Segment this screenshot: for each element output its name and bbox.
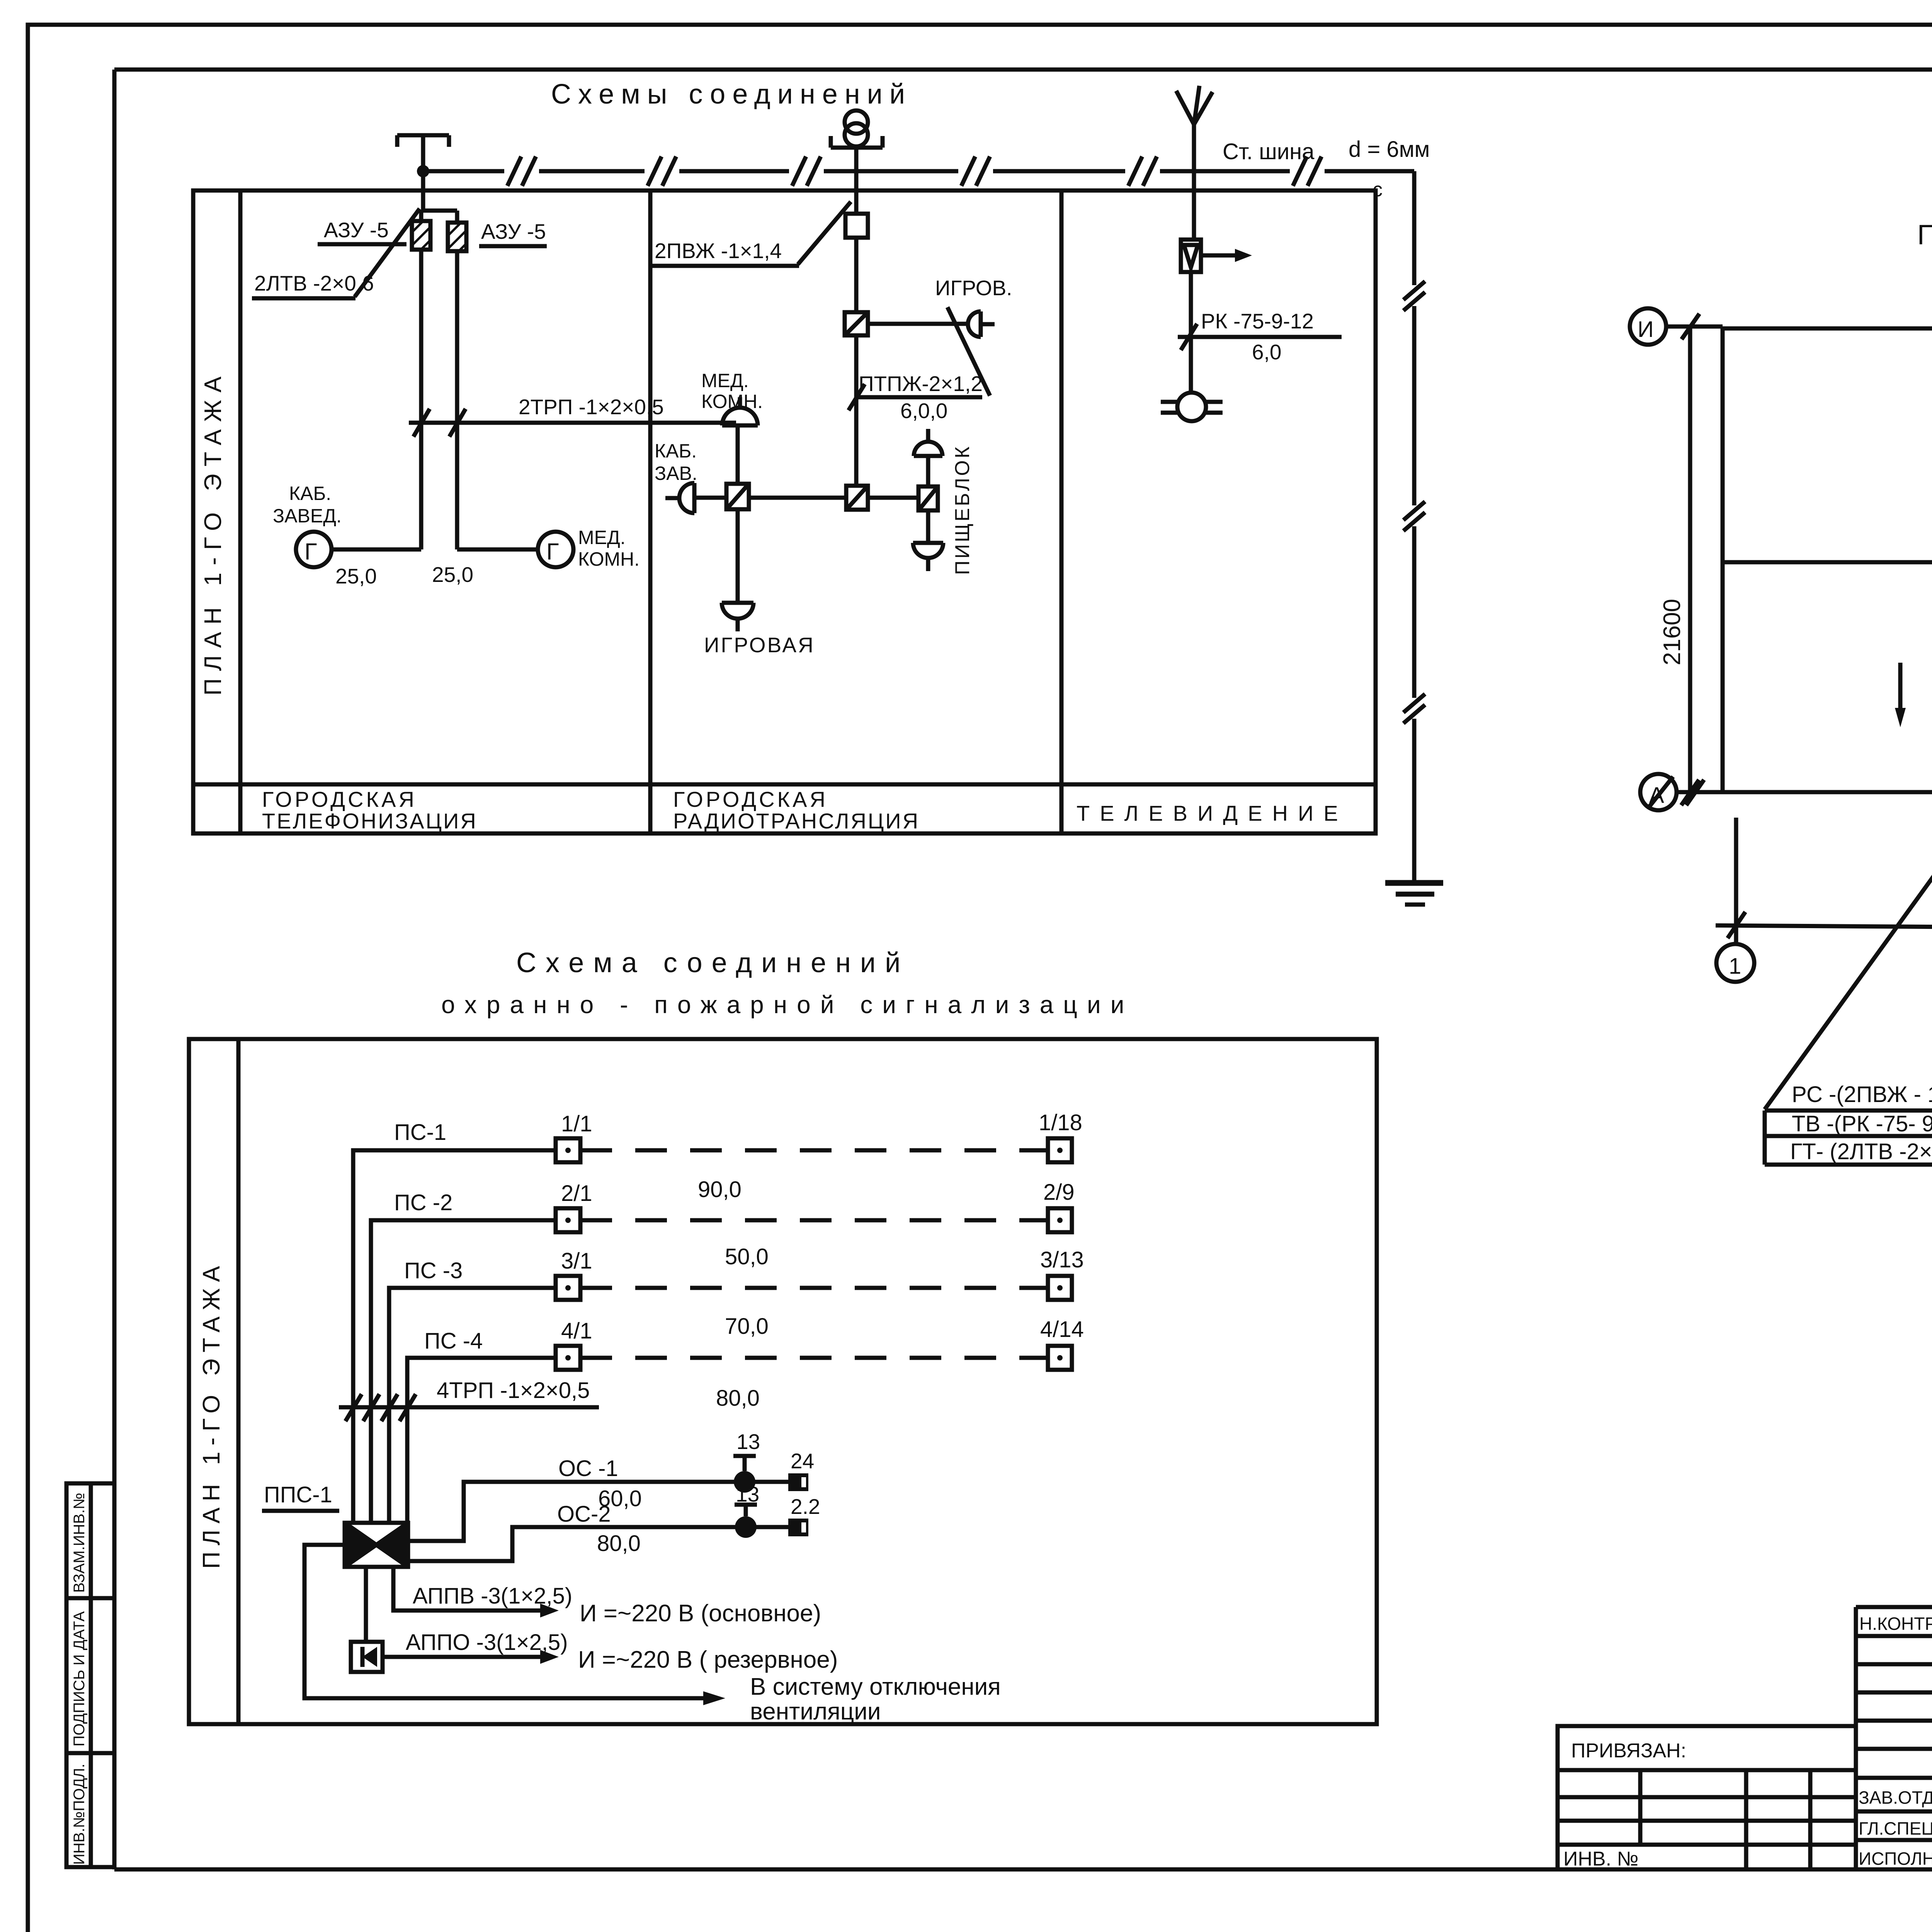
svg-text:90,0: 90,0 — [698, 1177, 742, 1202]
svg-text:АППО -3(1×2,5): АППО -3(1×2,5) — [406, 1630, 568, 1655]
svg-text:ИСПОЛН.: ИСПОЛН. — [1859, 1849, 1932, 1869]
svg-text:КАБ.: КАБ. — [655, 440, 697, 462]
svg-text:ОС -1: ОС -1 — [558, 1456, 618, 1481]
svg-text:3/13: 3/13 — [1040, 1247, 1084, 1272]
svg-text:ЗАВ.ОТД.: ЗАВ.ОТД. — [1859, 1787, 1932, 1808]
speaker dome мед.комн. — [722, 397, 758, 425]
svg-text:РС -(2ПВЖ - 1×1,4): РС -(2ПВЖ - 1×1,4) — [1792, 1082, 1932, 1107]
wire right branch — [868, 496, 918, 500]
svg-text:ПС -2: ПС -2 — [394, 1190, 452, 1215]
svg-text:ИГРОВАЯ: ИГРОВАЯ — [704, 633, 815, 657]
svg-text:Ст. шина: Ст. шина — [1223, 139, 1315, 164]
telephone socket Г (каб. завед.) — [296, 532, 332, 567]
radio distribution valve (center) — [846, 486, 868, 510]
svg-text:ЗАВЕД.: ЗАВЕД. — [273, 505, 342, 527]
wire down — [1189, 272, 1193, 393]
svg-text:2/1: 2/1 — [561, 1181, 592, 1206]
wire up + dome — [926, 456, 930, 486]
svg-text:3/1: 3/1 — [561, 1248, 592, 1274]
telephone socket Г (мед. комн.) — [538, 532, 573, 567]
extension to axis 1 — [1734, 818, 1738, 944]
svg-text:ТЕЛЕФОНИЗАЦИЯ: ТЕЛЕФОНИЗАЦИЯ — [262, 809, 478, 833]
svg-text:ТВ -(РК -75- 9 -12): ТВ -(РК -75- 9 -12) — [1792, 1111, 1932, 1136]
svg-text:вентиляции: вентиляции — [750, 1698, 881, 1725]
svg-text:Г: Г — [546, 539, 559, 565]
svg-text:25,0: 25,0 — [432, 563, 473, 587]
radio limiter box — [845, 214, 868, 238]
fire control panel ППС-1 (bowtie) — [345, 1523, 408, 1567]
привязан table — [1558, 1726, 1856, 1869]
svg-text:13: 13 — [736, 1430, 760, 1454]
svg-text:АППВ -3(1×2,5): АППВ -3(1×2,5) — [413, 1583, 572, 1609]
svg-text:1: 1 — [1729, 954, 1741, 979]
svg-text:ГОРОДСКАЯ: ГОРОДСКАЯ — [262, 787, 417, 811]
radio valve box (left) — [726, 484, 749, 509]
svg-text:1/18: 1/18 — [1039, 1110, 1082, 1135]
svg-text:1/1: 1/1 — [561, 1111, 592, 1136]
detector 2/1 — [556, 1208, 580, 1232]
svg-text:6,0,0: 6,0,0 — [900, 399, 947, 423]
svg-text:ИНВ. №: ИНВ. № — [1563, 1848, 1638, 1870]
wire to игров. speaker — [868, 322, 968, 326]
svg-text:13: 13 — [736, 1482, 759, 1506]
svg-text:ИНВ.№ПОДЛ.: ИНВ.№ПОДЛ. — [71, 1764, 88, 1865]
TV amplifier — [1181, 240, 1201, 272]
wire to каб.зав. speaker — [694, 496, 726, 500]
radio valve box (игровая feed) — [845, 312, 868, 335]
svg-text:Н.КОНТР.: Н.КОНТР. — [1859, 1614, 1932, 1634]
svg-text:РК -75-9-12: РК -75-9-12 — [1201, 309, 1314, 333]
svg-text:80,0: 80,0 — [597, 1531, 641, 1556]
telephone entry cap symbol — [397, 135, 449, 171]
ОС-2 bell — [735, 1516, 757, 1538]
svg-text:2.2: 2.2 — [791, 1495, 820, 1519]
riser ПС-2 — [371, 1220, 556, 1523]
svg-text:В систему отключения: В систему отключения — [750, 1673, 1001, 1700]
roof plan building outline — [1723, 328, 1932, 834]
wire left branch — [749, 496, 846, 500]
svg-text:50,0: 50,0 — [725, 1244, 769, 1269]
speaker horn игров. — [968, 311, 995, 337]
svg-text:ПС -4: ПС -4 — [424, 1328, 483, 1354]
wire: telephone drop — [421, 171, 457, 223]
reserve supply box АППО — [351, 1642, 383, 1672]
dimension line 31800 — [1716, 925, 1932, 930]
riser ПС-3 — [389, 1288, 556, 1523]
leader diagonal to ПТПЖ label — [947, 307, 990, 396]
TV antenna — [1176, 86, 1213, 240]
svg-text:2ПВЖ -1×1,4: 2ПВЖ -1×1,4 — [655, 239, 782, 263]
dashed loop 2 — [580, 1218, 1048, 1223]
bus break marks // — [507, 156, 1321, 186]
top band line / drawing frame top — [114, 68, 1932, 72]
svg-text:70,0: 70,0 — [725, 1314, 769, 1339]
svg-text:МЕД.: МЕД. — [578, 527, 626, 548]
svg-text:РАДИОТРАНСЛЯЦИЯ: РАДИОТРАНСЛЯЦИЯ — [673, 809, 920, 833]
svg-text:МЕД.: МЕД. — [701, 370, 749, 391]
svg-text:охранно - пожарной сигнализац: охранно - пожарной сигнализации — [441, 991, 1134, 1019]
wire down to игровая speaker — [736, 509, 740, 603]
ground symbol — [1385, 883, 1443, 905]
detector 2/9 — [1048, 1208, 1072, 1232]
wire up to мед.комн. speaker — [736, 425, 740, 484]
speaker dome игровая — [722, 603, 753, 631]
dashed loop 4 — [580, 1356, 1048, 1360]
title block — [1856, 1607, 1932, 1869]
ground wire break marks — [1403, 281, 1425, 723]
side stamp column — [66, 1483, 114, 1867]
svg-text:ПЛАН 1-ГО ЭТАЖА: ПЛАН 1-ГО ЭТАЖА — [198, 1260, 225, 1569]
dashed loop 3 — [580, 1286, 1048, 1290]
svg-text:2/9: 2/9 — [1043, 1180, 1075, 1205]
svg-text:ПТПЖ-2×1,2: ПТПЖ-2×1,2 — [859, 372, 983, 396]
svg-text:ПС-1: ПС-1 — [394, 1120, 446, 1145]
legend РС/ТВ/ГТ — [1765, 1082, 1932, 1165]
riser ПС-1 — [353, 1150, 556, 1523]
axis circle А — [1640, 774, 1677, 810]
long leader diagonal to legend — [1765, 508, 1932, 1109]
svg-text:ВЗАМ.ИНВ.№: ВЗАМ.ИНВ.№ — [71, 1493, 88, 1593]
arrester АЗУ-5 (right, hatched) — [448, 223, 466, 251]
svg-text:КОМН.: КОМН. — [701, 391, 763, 412]
wire: telephone pair down (right) — [457, 251, 538, 549]
svg-text:ГТ- (2ЛТВ -2×0,6): ГТ- (2ЛТВ -2×0,6) — [1790, 1139, 1932, 1164]
building internal wall horizontal — [1723, 560, 1932, 565]
ОС-1 end connector — [788, 1473, 808, 1491]
wire — [854, 238, 859, 312]
ОС-1 bell — [734, 1471, 755, 1493]
wire from bowtie to АППО box — [364, 1567, 368, 1642]
svg-text:25,0: 25,0 — [335, 564, 377, 588]
detector 3/13 — [1048, 1276, 1072, 1300]
wire АППВ feed — [393, 1567, 544, 1611]
svg-text:Схемы соединений: Схемы соединений — [551, 79, 912, 110]
svg-text:ППС-1: ППС-1 — [264, 1482, 332, 1507]
wire loop ОС-1 — [408, 1482, 788, 1541]
svg-text:План кровли: План кровли — [1917, 219, 1932, 250]
detector 3/1 — [556, 1276, 580, 1300]
radio valve box (right, пищеблок) — [918, 486, 938, 510]
svg-text:ПС -3: ПС -3 — [404, 1258, 463, 1283]
dimension line 21600 — [1688, 327, 1692, 792]
svg-text:Схема соединений: Схема соединений — [516, 947, 910, 978]
wire: radio drop continues — [854, 335, 859, 486]
radio entry bracket — [831, 136, 883, 148]
svg-text:с: с — [1372, 179, 1383, 201]
svg-text:КАБ.: КАБ. — [289, 483, 331, 504]
svg-text:6,0: 6,0 — [1252, 340, 1281, 364]
TV splitter — [1177, 393, 1206, 421]
svg-text:d = 6мм: d = 6мм — [1349, 137, 1430, 162]
svg-text:ОС-2: ОС-2 — [557, 1502, 611, 1527]
svg-text:21600: 21600 — [1659, 599, 1685, 665]
wire loop ОС-2 — [408, 1527, 788, 1561]
svg-text:4ТРП -1×2×0,5: 4ТРП -1×2×0,5 — [437, 1378, 590, 1403]
svg-text:И: И — [1638, 317, 1654, 342]
svg-text:4/1: 4/1 — [561, 1318, 592, 1344]
wire to ventilation shutdown — [304, 1545, 707, 1698]
drawing frame bottom — [114, 1867, 1932, 1872]
arrester АЗУ-5 (left, hatched) — [412, 221, 430, 250]
svg-text:АЗУ -5: АЗУ -5 — [324, 218, 389, 242]
svg-text:ИГРОВ.: ИГРОВ. — [935, 276, 1012, 300]
svg-text:КОМН.: КОМН. — [578, 548, 639, 570]
fire alarm box — [189, 1039, 1377, 1724]
svg-text:ГЛ.СПЕЦ.: ГЛ.СПЕЦ. — [1859, 1818, 1932, 1838]
axis circle И — [1630, 308, 1666, 345]
wire: radio drop — [854, 148, 859, 214]
riser ПС-4 — [407, 1358, 556, 1523]
axis circle 1 — [1716, 944, 1754, 982]
wire: ground conductor right side — [1412, 171, 1417, 883]
svg-text:ГОРОДСКАЯ: ГОРОДСКАЯ — [673, 787, 828, 811]
node: bus junction dot — [417, 165, 429, 177]
svg-text:ЗАВ.: ЗАВ. — [655, 463, 697, 484]
svg-text:И =~220 В (основное): И =~220 В (основное) — [580, 1600, 821, 1627]
wire АППО feed — [383, 1655, 544, 1659]
svg-text:80,0: 80,0 — [716, 1386, 760, 1411]
detector 1/1 — [556, 1138, 580, 1162]
wire: steel busbar Ст.шина — [423, 169, 1414, 173]
drawing frame left — [112, 70, 117, 1869]
detector 4/1 — [556, 1346, 580, 1370]
detector 4/14 — [1048, 1346, 1072, 1370]
svg-text:ТЕЛЕВИДЕНИЕ: ТЕЛЕВИДЕНИЕ — [1077, 801, 1348, 825]
svg-text:ПРИВЯЗАН:: ПРИВЯЗАН: — [1571, 1740, 1686, 1762]
dashed loop 1 — [580, 1148, 1048, 1153]
down arrow left — [1898, 663, 1903, 715]
svg-text:ПИЩЕБЛОК: ПИЩЕБЛОК — [951, 445, 974, 575]
svg-text:ПОДПИСЬ И ДАТА: ПОДПИСЬ И ДАТА — [71, 1611, 88, 1747]
speaker horn каб.зав. — [665, 483, 694, 513]
svg-text:24: 24 — [791, 1449, 814, 1473]
wire: telephone pair down (left) — [332, 250, 421, 549]
svg-text:Г: Г — [304, 539, 317, 565]
svg-text:И =~220 В ( резервное): И =~220 В ( резервное) — [578, 1646, 838, 1673]
svg-text:ПЛАН 1-ГО ЭТАЖА: ПЛАН 1-ГО ЭТАЖА — [200, 369, 226, 696]
svg-text:2ТРП -1×2×0,5: 2ТРП -1×2×0,5 — [519, 395, 664, 419]
detector 1/18 — [1048, 1138, 1072, 1162]
wire down + dome — [926, 510, 930, 543]
ОС-2 end connector — [788, 1519, 808, 1536]
svg-text:4/14: 4/14 — [1040, 1317, 1084, 1342]
connection diagrams box — [193, 190, 1376, 833]
radio entry transformer — [845, 111, 868, 134]
svg-text:АЗУ -5: АЗУ -5 — [481, 219, 546, 243]
